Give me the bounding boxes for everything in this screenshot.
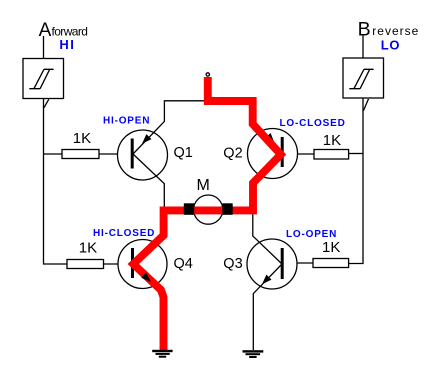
transistor Q2 body [248,129,298,179]
svg-text:1K: 1K [322,239,340,256]
wire Q3 base to R3 [282,262,313,264]
svg-text:B: B [358,19,371,41]
svg-text:Q2: Q2 [223,145,242,161]
wire right rail U2 output to R3 [349,98,363,264]
wire junction branch to R2 [349,153,363,155]
wire Q2 emitter to supply [253,102,283,155]
wire Q2 base to R2 [282,153,314,155]
svg-text:LO: LO [381,37,401,52]
wire R1 to Q1 base [99,153,132,155]
resistor R4 [67,260,104,269]
ground right [243,350,264,358]
resistor R2 [314,150,349,160]
svg-text:LO-OPEN: LO-OPEN [286,229,337,240]
svg-text:LO-CLOSED: LO-CLOSED [280,118,346,129]
wire B to U2 input [362,36,364,58]
supply terminal node [206,73,209,76]
svg-text:M: M [197,177,210,194]
svg-text:1K: 1K [323,132,341,149]
ground left [152,350,172,358]
edge mark at U1 output [44,99,49,108]
schmitt trigger U2 [343,58,384,98]
svg-text:Q3: Q3 [223,256,242,272]
svg-text:Q1: Q1 [174,145,193,161]
wire A to U1 input [43,36,45,59]
svg-text:Q4: Q4 [174,256,193,272]
wire Q3 emitter to ground [253,264,282,350]
svg-text:A: A [39,20,52,41]
wire Q1 emitter to supply rail [133,101,208,154]
resistor R3 [313,259,349,268]
schmitt trigger U1 [23,59,64,99]
transistor Q4 base bar [131,248,134,278]
edge mark at U2 output [363,99,368,111]
motor M body [194,195,223,224]
wire Q1 collector to motor rail [133,154,164,210]
red current path supply through Q2 motor Q4 to ground [133,77,280,351]
wire left rail U1 output to R4 [44,99,68,265]
transistor Q4 body [118,240,167,289]
transistor Q1 base bar [131,139,134,169]
motor M left brush terminal [184,203,194,215]
svg-text:reverse: reverse [372,24,419,38]
wire Q2 collector to motor rail [253,155,282,211]
transistor Q3 base bar [281,248,284,279]
transistor Q4 emitter arrow [141,273,151,282]
svg-text:1K: 1K [73,130,91,147]
resistor R1 [62,150,99,159]
svg-text:HI-CLOSED: HI-CLOSED [93,228,155,239]
motor M right brush terminal [222,203,232,215]
transistor Q1 body [118,130,168,180]
svg-text:1K: 1K [79,240,97,257]
transistor Q3 emitter arrow [262,275,272,285]
transistor Q2 emitter arrow [265,133,275,143]
transistor Q1 emitter arrow [142,134,152,144]
svg-text:HI: HI [59,37,75,52]
wire Q3 collector to motor rail [253,214,282,264]
svg-text:HI-OPEN: HI-OPEN [103,115,150,126]
wire junction branch to R1 [44,153,63,155]
transistor Q2 base bar [281,137,284,167]
transistor Q3 body [247,239,297,289]
wire R4 to Q4 base [104,263,133,265]
